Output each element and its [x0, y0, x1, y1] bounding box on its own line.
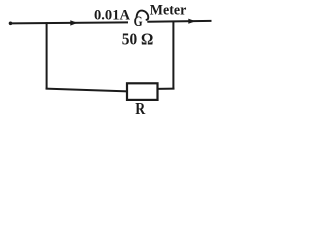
wire top-right segment — [147, 20, 211, 23]
meter leader arc over G — [137, 11, 149, 20]
wire resistor to right vertical — [157, 88, 175, 90]
current arrow left — [70, 20, 77, 25]
svg-text:G: G — [134, 14, 143, 30]
svg-text:50 Ω: 50 Ω — [122, 30, 154, 49]
wire bottom segment — [46, 89, 128, 92]
resistor R box — [127, 83, 158, 100]
left terminal dot — [9, 22, 13, 26]
wire right vertical — [172, 22, 174, 89]
svg-text:Meter: Meter — [150, 3, 187, 19]
node junction left — [46, 22, 48, 89]
svg-text:0.01A: 0.01A — [94, 8, 130, 24]
svg-text:R: R — [135, 99, 146, 118]
current arrow right — [188, 19, 195, 24]
wire top-left segment — [10, 22, 128, 23]
